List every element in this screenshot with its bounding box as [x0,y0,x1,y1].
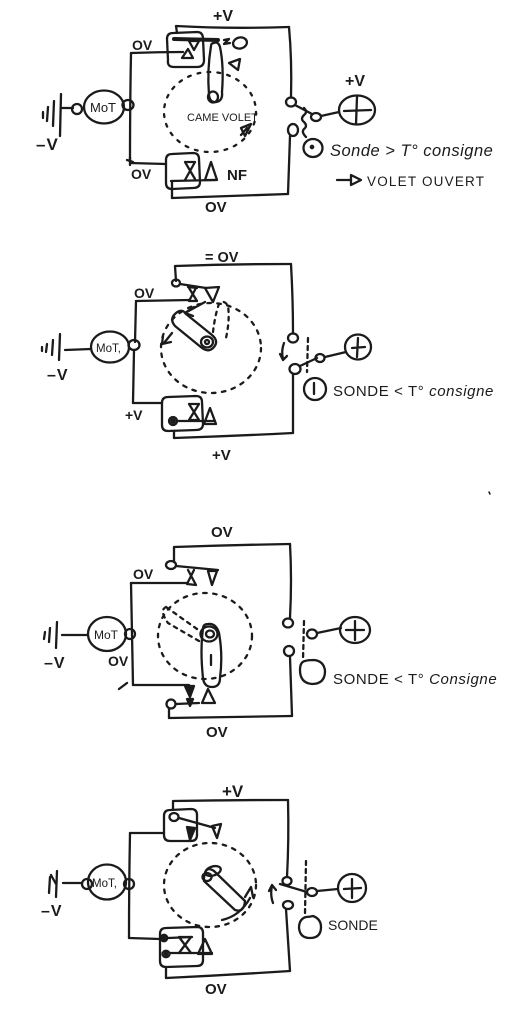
switch terminal mid [311,113,321,121]
microswitch S1 body [167,32,204,67]
S2 contact bar [178,420,215,422]
switch flip arrow (down) [280,343,287,360]
source circle [345,335,371,360]
svg-text:MoT: MoT [90,100,116,115]
wire bottom rail [166,971,290,978]
svg-text:SONDE < T° Consigne: SONDE < T° Consigne [333,671,497,688]
sonde bulb [304,139,323,157]
S1 moving contact triangle [189,41,199,50]
wire right rail lower [288,136,290,194]
S2 moving triangle (filled) [185,686,194,697]
wire right rail upper [289,27,291,97]
wire top rail [176,26,289,33]
svg-text:–V: –V [47,367,69,384]
S1 contact bar [176,566,218,570]
S2 terminal [169,417,177,425]
wire right rail upper [287,800,288,877]
switch terminal mid [316,354,325,362]
wire to source [317,628,341,633]
cam disc dashed [161,303,261,393]
S1 contact X [188,287,197,301]
ground lead [61,107,73,109]
junction lower left [127,157,133,165]
wire to source [317,889,338,891]
junction tick bottom left [119,683,127,689]
svg-text:+V: +V [125,407,143,423]
S1 moving contact X [187,570,196,585]
wire S2 down [165,967,167,978]
switch terminal lower [284,646,294,656]
svg-text:+V: +V [345,73,365,90]
cam lobe inner line [210,655,212,665]
motor MOT [88,617,126,651]
S2 terminal [167,700,176,709]
wire to S2 [133,684,189,686]
svg-text:MoT,: MoT, [96,343,121,355]
wire left to S1 [130,832,164,834]
rotation arrow lower left [162,333,172,344]
wire left vertical upper [135,301,136,342]
svg-text:NF: NF [227,167,247,184]
wire bottom rail [169,716,292,718]
S2 terminal upper [161,935,167,941]
switch terminal mid [307,888,317,896]
source circle [338,874,366,902]
stray dot right margin [489,492,490,494]
S1 terminal [166,561,176,569]
sonde bulb [299,916,321,938]
source circle [340,617,370,643]
svg-text:OV: OV [206,724,228,741]
cam pivot circle [201,337,213,348]
switch terminal upper right [283,619,293,628]
wire S2 down [171,182,173,198]
dashed actuator rod [307,338,308,372]
wire right rail lower [286,909,290,971]
ground lead [65,349,91,350]
switch flip arrow (up) [269,885,276,903]
wire top rail [174,544,290,562]
wire S2 down [168,708,170,718]
S2 follower triangle [204,408,216,424]
S1 terminal [172,280,180,287]
rotation arrow top right [229,59,240,70]
actuator roller blob [232,36,248,50]
cam pivot loop [204,864,222,878]
rotation arrow upper [185,302,205,316]
svg-text:OV: OV [131,166,152,182]
svg-text:OV: OV [108,653,129,669]
wire right rail lower [292,374,294,433]
switch terminal mid [307,630,317,639]
S2 fixed triangle [202,689,215,703]
wire to S2 [130,163,166,164]
wire left to S1 [136,300,190,301]
svg-text:SONDE: SONDE [328,917,378,933]
ground lead [62,634,88,636]
svg-text:SONDE < T° consigne: SONDE < T° consigne [333,383,494,400]
cam lobe [172,311,216,351]
svg-text:CAME VOLET: CAME VOLET [187,112,258,124]
motor terminal right [123,100,134,110]
rotation arrow [222,887,253,920]
rotation arrow bottom right [241,124,251,136]
wire left vertical [130,53,131,161]
ground symbol [44,622,57,648]
svg-text:Sonde > T° consigne: Sonde > T° consigne [330,142,493,160]
ground lead [63,882,82,884]
sonde bulb [304,378,326,400]
cam previous position dashed [163,607,199,641]
sonde bulb [300,660,325,684]
wire left 0V to S1 [131,52,183,53]
motor terminal right [129,340,140,350]
actuator mark 2 [224,39,230,44]
switch lever [300,358,317,366]
svg-text:OV: OV [205,981,227,998]
microswitch S1 body [164,809,197,841]
wire to source [321,112,339,116]
cam follower end circle [208,92,218,103]
cam disc dashed [164,843,256,927]
wire motor down [133,350,134,403]
wire to S2 [129,938,160,939]
svg-text:–V: –V [44,655,66,672]
S1 fixed triangle [212,824,221,838]
svg-text:–V: –V [36,135,59,154]
dashed actuator rod [305,861,306,913]
cam disc dashed [158,593,252,679]
S1 follower triangle [205,287,219,302]
S1 lever [179,818,215,828]
S1 fixed triangle [208,571,217,585]
microswitch S2 body [160,927,203,967]
svg-text:OV: OV [132,37,153,53]
microswitch S2 body [166,153,200,189]
motor terminal left [82,879,92,889]
S2 moving triangle small (filled) [187,699,193,706]
switch terminal upper right [288,334,298,343]
cam disc dashed [164,72,256,152]
cam lobe [202,624,222,687]
switch terminal top right [286,98,296,107]
switch lever [295,105,312,114]
motor MOT [91,332,129,363]
motor MOT [84,91,124,124]
motor MOT [88,865,126,900]
ground symbol [49,871,57,897]
wire left vertical [131,583,133,685]
switch terminal lower [283,901,293,909]
S1 lever pressed (thick bar) [174,39,218,40]
S2 contact bar [176,703,199,704]
switch terminal lower [288,124,298,136]
svg-text:MoT: MoT [94,628,119,642]
microswitch S2 body [162,396,203,431]
S1 moving triangle (filled) [187,827,195,840]
svg-text:OV: OV [133,566,154,582]
svg-text:+V: +V [222,782,244,801]
svg-text:+V: +V [213,8,233,25]
wire right rail upper [290,544,291,618]
S2 contact X [185,162,195,180]
wire bottom rail [174,433,293,438]
wire right rail lower [290,657,292,716]
dashed actuator rod [303,621,304,660]
switch lever [280,884,307,892]
S2 contact bar [168,937,212,953]
S2 follower triangle [198,939,212,954]
S2 contact X [179,937,191,953]
wire left vertical [129,833,130,938]
switch terminal upper right [283,877,292,885]
wire top rail [175,264,291,281]
svg-text:OV: OV [211,524,233,541]
cam pivot circle [201,627,218,642]
ground symbol [43,94,61,136]
sonde link squiggle [302,108,306,137]
S2 follower triangle [205,162,217,180]
wire top rail [173,800,288,810]
motor terminal right [124,879,134,889]
cam lobe [204,869,245,910]
S2 contact bar [171,180,215,181]
cam follower bar [208,43,222,103]
source circle +V [339,96,375,125]
S2 contact X [189,404,199,420]
S2 terminal lower [163,951,170,957]
svg-text:OV: OV [134,285,155,301]
wire right rail upper [291,264,293,333]
wire bottom rail [172,194,288,198]
svg-text:–V: –V [41,903,63,920]
S1 lower contact triangle [182,49,193,58]
switch terminal lower [290,364,301,374]
S1 lever [180,284,206,288]
wire to source [325,352,346,357]
wire S2 down [173,431,175,438]
annotation arrow [337,175,361,185]
motor terminal right [125,629,135,639]
wire to S2 [133,402,162,404]
svg-text:VOLET OUVERT: VOLET OUVERT [367,174,485,189]
svg-text:OV: OV [205,199,227,216]
svg-text:MoT,: MoT, [92,878,117,890]
cam previous position dashed [213,302,229,338]
ground symbol [42,334,60,360]
svg-text:+V: +V [212,447,231,464]
motor terminal left [72,104,82,114]
S1 terminal [170,813,179,821]
wire left to S1 [131,582,187,584]
